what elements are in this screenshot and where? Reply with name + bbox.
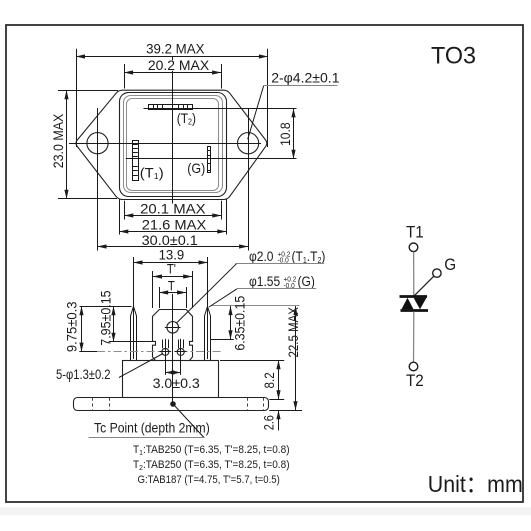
pin tip extension line left — [80, 306, 132, 308]
svg-text:(G): (G) — [298, 273, 315, 289]
can inner outline — [127, 99, 219, 191]
vertical centerline side view — [172, 294, 174, 406]
svg-text:T2:TAB250 (T=6.35, T'=8.25, t=: T2:TAB250 (T=6.35, T'=8.25, t=0.8) — [133, 459, 290, 472]
horizontal centerline through holes — [69, 143, 261, 145]
dimension 22.5 MAX — [295, 306, 297, 410]
mounting hole right — [238, 133, 259, 154]
can outer outline — [120, 93, 227, 197]
dimension T — [159, 287, 161, 308]
Tc point dot — [170, 401, 176, 407]
svg-text:8.2: 8.2 — [261, 372, 277, 388]
terminal circle T1 — [409, 243, 418, 252]
svg-text:20.2 MAX: 20.2 MAX — [148, 57, 210, 73]
svg-text:6.35±0.15: 6.35±0.15 — [232, 296, 248, 351]
svg-text:3.0±0.3: 3.0±0.3 — [153, 376, 200, 392]
svg-text:9.75±0.3: 9.75±0.3 — [64, 301, 80, 352]
dimension 20.2 MAX — [124, 64, 126, 89]
dimension T' — [152, 271, 154, 308]
gate wire — [414, 276, 434, 296]
triac lower triangle (points up) — [402, 298, 414, 310]
svg-text:T: T — [168, 277, 175, 294]
svg-text:(G): (G) — [187, 160, 205, 176]
svg-text:21.6 MAX: 21.6 MAX — [142, 218, 207, 234]
hole centerline vertical left (30.0 extension) — [97, 108, 99, 251]
T1/G pin row centerline + 10.8 bottom extension — [126, 158, 297, 160]
triac top bar — [400, 295, 428, 298]
svg-text:23.0 MAX: 23.0 MAX — [50, 114, 66, 169]
flange side view plate — [74, 398, 269, 411]
svg-text:G:TAB187 (T=4.75, T'=5.7, t=0.: G:TAB187 (T=4.75, T'=5.7, t=0.5) — [138, 475, 280, 487]
dimension 8.2 — [220, 360, 284, 362]
svg-text:T': T' — [167, 260, 176, 277]
svg-text:7.95±0.15: 7.95±0.15 — [98, 290, 114, 345]
svg-text:φ1.55: φ1.55 — [249, 273, 280, 289]
phi2.0 hole circle — [167, 322, 179, 334]
right needle pin (G) — [205, 306, 211, 360]
footer shading band — [0, 507, 531, 515]
pin channel edges left — [162, 340, 164, 349]
flange hexagon outline — [76, 90, 267, 199]
svg-text:20.1 MAX: 20.1 MAX — [140, 202, 206, 218]
dimension 6.35 — [211, 339, 234, 341]
svg-text:T1: T1 — [406, 224, 424, 242]
dimension 10.8 — [293, 108, 295, 158]
pin channel edges right — [178, 340, 180, 349]
svg-text:39.2 MAX: 39.2 MAX — [146, 41, 204, 56]
T2 pin row centerline + 10.8 top extension — [144, 108, 297, 110]
svg-text:5-φ1.3±0.2: 5-φ1.3±0.2 — [56, 366, 111, 383]
dimension 23.0 MAX — [58, 90, 118, 92]
svg-text:(T1): (T1) — [140, 166, 164, 181]
svg-text:2.6: 2.6 — [261, 415, 277, 430]
svg-text:Tc Point (depth 2mm): Tc Point (depth 2mm) — [94, 420, 210, 436]
pin hole circle right — [177, 348, 184, 355]
middle pin left wire — [165, 339, 167, 375]
svg-text:T1:TAB250 (T=6.35, T'=8.25, t=: T1:TAB250 (T=6.35, T'=8.25, t=0.8) — [133, 444, 290, 457]
svg-text:(T2): (T2) — [177, 110, 196, 127]
triac upper triangle (points down) — [414, 298, 427, 310]
wire triac to T2 — [413, 312, 415, 363]
svg-text:2-φ4.2±0.1: 2-φ4.2±0.1 — [271, 69, 339, 85]
header boss outline — [153, 310, 193, 361]
seating plane dash-dot line — [79, 351, 97, 353]
terminal circle G — [433, 269, 441, 277]
dimension 30.0+-0.1 — [98, 246, 249, 248]
dimension 39.2 MAX — [76, 49, 78, 147]
pin T2 (top view bar) — [149, 105, 193, 110]
dimension 21.6 MAX — [119, 199, 121, 235]
pin tip extension line right — [211, 305, 300, 307]
svg-text:10.8: 10.8 — [277, 122, 293, 145]
middle pin right wire — [180, 339, 182, 375]
pin hole circle left — [162, 348, 169, 355]
hidden mounting hole left (dashed) — [93, 398, 264, 410]
svg-text:T2: T2 — [406, 373, 424, 391]
svg-text:φ2.0: φ2.0 — [249, 248, 273, 264]
terminal circle T2 — [409, 362, 418, 371]
svg-text:G: G — [444, 256, 456, 274]
dimension 7.95 — [109, 341, 153, 343]
pin G (top view bar) — [207, 147, 210, 173]
svg-text:TO3: TO3 — [431, 42, 476, 68]
body (can base) rectangle — [123, 361, 219, 398]
vertical centerline of package — [172, 57, 174, 60]
dimension 9.75 — [81, 306, 83, 351]
dimension 2.6 — [269, 410, 302, 412]
svg-text:Unit：mm: Unit：mm — [428, 471, 523, 497]
pin T1 (top view bar) — [132, 141, 138, 181]
can middle outline — [124, 96, 223, 193]
mounting hole left — [87, 133, 108, 154]
dimension 20.1 MAX — [124, 201, 126, 220]
svg-text:22.5 MAX: 22.5 MAX — [285, 307, 301, 358]
hole centerline vertical right (30.0 extension) — [248, 108, 250, 251]
left needle pin (T) — [131, 306, 137, 360]
dimension 3.0+-0.3 — [165, 372, 180, 374]
wire T1 to triac — [413, 252, 415, 295]
dimension 13.9 — [133, 257, 135, 359]
triac bottom bar — [401, 309, 429, 312]
